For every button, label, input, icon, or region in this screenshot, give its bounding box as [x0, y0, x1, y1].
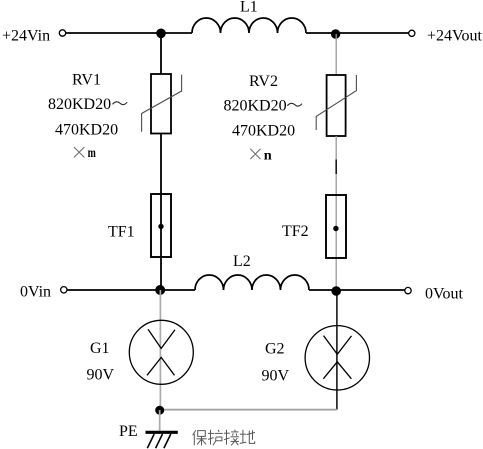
char 接 — [224, 430, 239, 446]
wire top rail left — [66, 32, 192, 34]
svg-text:TF1: TF1 — [108, 223, 135, 240]
wire PE node to ground (gray) — [159, 410, 161, 431]
label RV2 value 820KD20~ — [224, 97, 303, 114]
svg-text:L1: L1 — [240, 0, 258, 16]
wire 0V rail left — [67, 289, 195, 291]
svg-text:+24Vin: +24Vin — [2, 28, 50, 45]
svg-text:+24Vout: +24Vout — [427, 28, 483, 45]
varistor RV1 — [142, 74, 182, 134]
char 护 — [208, 430, 223, 446]
varistor RV2 — [316, 75, 356, 136]
svg-text:820KD20: 820KD20 — [224, 97, 287, 114]
svg-text:n: n — [264, 149, 272, 164]
svg-text:RV1: RV1 — [72, 72, 101, 89]
terminal +24Vout — [409, 30, 415, 36]
svg-text:RV2: RV2 — [249, 73, 278, 90]
svg-text:90V: 90V — [262, 367, 290, 384]
wire G2 bottom to PE node (gray) — [160, 409, 337, 411]
wire node C through G1 to PE (gray) — [159, 290, 161, 410]
label x m — [74, 146, 96, 161]
inductor L1 — [192, 18, 306, 33]
svg-text:G2: G2 — [265, 340, 285, 357]
node B (top right junction) — [331, 29, 340, 38]
thermal fuse TF2 — [326, 195, 346, 258]
wire 0V rail right — [309, 289, 405, 291]
label RV1 value 820KD20~ — [48, 96, 127, 113]
svg-text:L2: L2 — [233, 253, 251, 270]
gas discharge tube G2 — [305, 326, 369, 390]
terminal 0Vout — [405, 287, 411, 293]
ground (protective earth symbol) — [146, 432, 178, 448]
svg-text:TF2: TF2 — [282, 223, 309, 240]
wire node D through G2 down (black) — [336, 291, 338, 410]
svg-text:820KD20: 820KD20 — [48, 96, 111, 113]
svg-text:G1: G1 — [90, 340, 110, 357]
svg-text:0Vout: 0Vout — [425, 285, 463, 302]
inductor L2 — [195, 275, 309, 290]
terminal 0Vin — [61, 287, 67, 293]
char 地 — [240, 430, 255, 444]
node A (top left junction) — [156, 29, 166, 39]
wire node B to RV2 (gray) — [335, 34, 337, 75]
wire node A to RV1 — [160, 33, 162, 75]
node PE junction — [155, 406, 164, 415]
svg-text:PE: PE — [119, 423, 138, 440]
svg-text:0Vin: 0Vin — [20, 284, 51, 301]
svg-text:90V: 90V — [87, 366, 115, 383]
wire RV1 to TF1 to 0V rail — [160, 134, 162, 290]
wire top rail right — [306, 32, 409, 34]
terminal +24Vin — [59, 30, 65, 36]
node C (0V left junction) — [155, 285, 165, 295]
label x n — [250, 149, 272, 164]
char 保 — [193, 430, 207, 445]
svg-text:470KD20: 470KD20 — [55, 121, 118, 138]
thermal fuse TF1 — [151, 194, 171, 257]
wire RV2 to TF2 to 0V rail (gray) — [335, 136, 337, 291]
svg-text:470KD20: 470KD20 — [232, 123, 295, 140]
node D (0V right junction) — [331, 286, 341, 296]
wire RV2 lower lead (black overlay) — [335, 160, 337, 175]
gas discharge tube G1 — [129, 320, 193, 384]
label 保护接地 (protective earth, drawn strokes) — [193, 430, 255, 446]
svg-text:m: m — [88, 146, 96, 161]
